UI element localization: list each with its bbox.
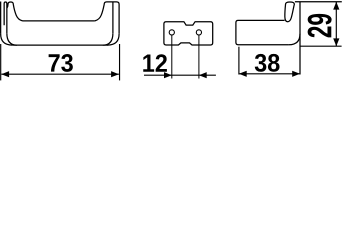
dim 38 extension line left [238, 47, 240, 75]
dim 73 arrow right [111, 71, 119, 77]
front view: inner divider line right [112, 3, 114, 34]
front view: hook head right (flare up into cap) [95, 2, 119, 34]
front view: bottom-right outer arc [108, 34, 120, 45]
dim text 73 [49, 54, 73, 72]
dim 29 arrow bottom [333, 38, 339, 46]
dim 12 arrow right (pointing left) [199, 72, 207, 78]
dim 73 line [1, 73, 119, 75]
dim text 38 [255, 54, 280, 72]
dim text 29 (rotated) [308, 14, 332, 38]
front view: bottom edge [12, 44, 108, 46]
front view: bar end cap left (narrow inverted U) [4, 2, 7, 33]
dim 29 line [335, 2, 337, 46]
dim 38 arrow left [239, 71, 247, 77]
top view: hole right [196, 30, 201, 35]
top view: hole left [169, 30, 174, 35]
front view: ledge top line [23, 20, 95, 22]
dim 29 arrow top [333, 2, 339, 10]
dim 38 arrow right [292, 71, 300, 77]
front view: bottom-left outer arc [1, 34, 13, 45]
side view: ledge outline [236, 20, 289, 44]
front view: bottom-left inner arc [7, 33, 17, 45]
center/extension line through right hole [198, 35, 200, 79]
dim 73 extension line right [119, 44, 121, 80]
side view: plate top edge (continues right as dim 29 extension) [295, 1, 342, 3]
front view: outer left edge with top corner arc [0, 2, 2, 34]
side view: plate front line (continues down as dim 38 extension) [299, 2, 301, 75]
dim 73 extension line left [0, 44, 2, 80]
dim 29 extension line bottom (below ledge bottom) [300, 45, 342, 47]
side view: hanging hook (drop shape) [285, 2, 295, 22]
front view: hook head left (cap with flaring sides) [7, 2, 23, 21]
front view: bottom-right inner arc [103, 33, 113, 45]
dim text 12 [143, 54, 167, 72]
dim 73 arrow left [1, 71, 9, 77]
dim 12 arrow left (pointing right) [164, 72, 172, 78]
dim 12 line [144, 74, 216, 76]
side view: rear bottom fillet [289, 34, 300, 45]
top view: plate outline with notch and bump [164, 22, 213, 45]
center/extension line through left hole [171, 35, 173, 79]
dim 38 line [239, 73, 300, 75]
